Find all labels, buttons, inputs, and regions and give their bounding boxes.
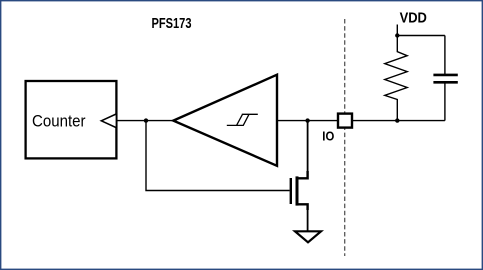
pin IO — [338, 114, 352, 128]
input arrowhead at Counter — [101, 114, 116, 128]
wire schmitt to IO pin — [277, 120, 337, 122]
svg-text:Counter: Counter — [32, 112, 86, 131]
resistor R1 — [385, 36, 407, 121]
wire counter to schmitt input — [116, 120, 173, 122]
wire top to capacitor branch — [397, 35, 445, 37]
wire source — [307, 209, 309, 231]
svg-text:VDD: VDD — [400, 10, 427, 27]
node B (drain junction) — [305, 118, 309, 122]
wire feedback to gate — [146, 121, 290, 191]
boundary (dashed chip edge) — [344, 19, 346, 256]
transistor Q1 — [291, 171, 308, 210]
block Counter — [26, 81, 117, 158]
wire IO pin to RC network — [352, 120, 445, 122]
wire drain — [307, 121, 309, 176]
node D (top RC junction) — [395, 33, 399, 37]
node A (feedback junction) — [144, 118, 148, 122]
wire VDD stub — [396, 25, 398, 36]
ground — [295, 231, 321, 242]
svg-text:IO: IO — [322, 129, 334, 144]
svg-text:PFS173: PFS173 — [152, 15, 192, 32]
node C (bottom RC junction) — [395, 118, 399, 122]
schmitt trigger U1 — [173, 75, 277, 166]
capacitor C1 — [433, 36, 457, 121]
